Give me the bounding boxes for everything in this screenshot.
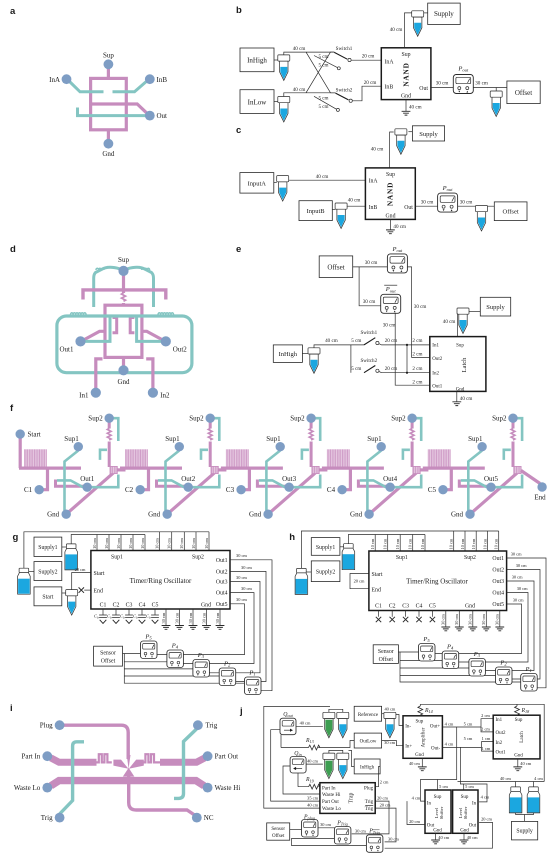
svg-text:40 cm: 40 cm: [438, 835, 449, 840]
svg-text:Sup: Sup: [461, 795, 469, 800]
svg-text:Out: Out: [419, 86, 428, 92]
svg-text:10 cm: 10 cm: [116, 538, 121, 549]
svg-text:30 cm: 30 cm: [161, 612, 166, 623]
svg-text:Sup2: Sup2: [189, 415, 204, 423]
svg-text:Supply: Supply: [486, 304, 505, 311]
svg-text:Start: Start: [372, 572, 383, 578]
svg-text:10 cm: 10 cm: [128, 538, 133, 549]
svg-text:30 cm: 30 cm: [236, 597, 247, 602]
svg-text:Qout: Qout: [283, 712, 293, 718]
svg-text:30 cm: 30 cm: [215, 612, 220, 623]
svg-text:Out5: Out5: [492, 602, 504, 608]
svg-text:Sup1: Sup1: [111, 554, 123, 560]
svg-text:Trig: Trig: [365, 807, 374, 812]
svg-text:Out1: Out1: [216, 558, 228, 564]
svg-text:Offset: Offset: [327, 264, 344, 272]
svg-text:P3: P3: [197, 652, 205, 659]
svg-text:20 cm: 20 cm: [364, 80, 377, 86]
svg-text:InB: InB: [157, 76, 168, 84]
svg-text:Supply2: Supply2: [316, 570, 335, 576]
svg-text:30 cm: 30 cm: [468, 614, 473, 625]
svg-text:2 cm: 2 cm: [412, 366, 422, 372]
svg-text:10 cm: 10 cm: [154, 538, 159, 549]
svg-text:30 cm: 30 cm: [188, 612, 193, 623]
svg-text:Cb: Cb: [94, 614, 99, 620]
svg-text:Sup: Sup: [515, 718, 523, 723]
svg-text:Gnd: Gnd: [47, 511, 60, 519]
svg-text:j: j: [239, 706, 243, 717]
svg-text:Part In: Part In: [322, 786, 336, 791]
svg-text:40 cm: 40 cm: [520, 761, 531, 766]
svg-text:Pout: Pout: [385, 286, 397, 293]
svg-text:Offset: Offset: [272, 834, 285, 839]
svg-text:20 cm: 20 cm: [75, 567, 86, 572]
svg-text:30 cm: 30 cm: [241, 565, 252, 570]
svg-text:30 cm: 30 cm: [384, 740, 395, 745]
svg-text:Gnd: Gnd: [401, 94, 411, 100]
svg-text:30 cm: 30 cm: [388, 836, 399, 841]
svg-text:Shifter: Shifter: [439, 806, 444, 819]
svg-text:Gnd: Gnd: [514, 754, 523, 759]
svg-text:Sup: Sup: [401, 52, 410, 58]
svg-text:2 cm: 2 cm: [412, 338, 422, 344]
svg-text:Trig: Trig: [41, 814, 53, 822]
svg-text:5 cm: 5 cm: [465, 784, 474, 789]
svg-text:40 cm: 40 cm: [307, 803, 318, 808]
svg-text:40 cm: 40 cm: [500, 776, 511, 781]
svg-text:In: In: [427, 801, 432, 806]
svg-text:30 cm: 30 cm: [320, 822, 331, 827]
svg-text:Gnd: Gnd: [249, 511, 262, 519]
svg-text:Gnd: Gnd: [433, 828, 442, 833]
svg-text:40 cm: 40 cm: [348, 198, 361, 204]
svg-text:30 cm: 30 cm: [236, 575, 247, 580]
svg-text:Out: Out: [469, 823, 477, 828]
svg-text:R13: R13: [305, 738, 314, 744]
svg-text:R19: R19: [305, 777, 315, 783]
svg-text:20 cm: 20 cm: [354, 579, 365, 584]
svg-text:Offset: Offset: [503, 209, 519, 216]
svg-text:P3: P3: [473, 651, 481, 658]
svg-text:d: d: [10, 244, 16, 255]
svg-text:Out: Out: [157, 112, 168, 120]
svg-text:Gnd: Gnd: [148, 511, 161, 519]
svg-text:Plug: Plug: [40, 722, 53, 730]
svg-text:30 cm: 30 cm: [201, 612, 206, 623]
svg-text:30 cm: 30 cm: [355, 828, 366, 833]
svg-text:5 cm: 5 cm: [439, 784, 448, 789]
svg-text:c: c: [236, 125, 241, 136]
svg-text:2 cm: 2 cm: [481, 726, 490, 731]
svg-text:In+: In+: [405, 745, 412, 750]
svg-text:C4: C4: [416, 603, 423, 609]
svg-text:End: End: [94, 589, 103, 595]
svg-text:In2: In2: [496, 741, 503, 746]
svg-text:Out2: Out2: [181, 475, 196, 483]
svg-text:10 cm: 10 cm: [204, 538, 209, 549]
svg-text:30 cm: 30 cm: [495, 614, 500, 625]
svg-text:Waste Lo: Waste Lo: [14, 784, 41, 792]
svg-text:e: e: [236, 244, 241, 255]
svg-text:Sup1: Sup1: [396, 555, 408, 561]
svg-text:In2: In2: [432, 371, 439, 376]
svg-text:Out2: Out2: [173, 346, 188, 354]
svg-text:Sup2: Sup2: [464, 555, 476, 561]
svg-text:Out1: Out1: [496, 751, 507, 756]
svg-text:30 cm: 30 cm: [511, 551, 522, 556]
svg-text:30 cm: 30 cm: [517, 586, 528, 591]
svg-text:Supply1: Supply1: [38, 545, 57, 551]
svg-text:End: End: [372, 588, 381, 594]
svg-text:Gnd: Gnd: [415, 753, 424, 758]
svg-text:20 cm: 20 cm: [481, 817, 492, 822]
svg-text:a: a: [10, 6, 16, 17]
svg-text:5 cm: 5 cm: [464, 736, 473, 741]
svg-text:2 cm: 2 cm: [412, 379, 422, 385]
svg-text:Sup2: Sup2: [391, 415, 406, 423]
svg-text:C5: C5: [429, 603, 436, 609]
svg-text:Plug: Plug: [364, 786, 374, 791]
svg-text:40 cm: 40 cm: [293, 46, 306, 52]
svg-text:C1: C1: [100, 602, 107, 608]
svg-text:20 cm: 20 cm: [380, 803, 391, 808]
svg-text:Sup1: Sup1: [468, 435, 483, 443]
svg-text:Sup2: Sup2: [290, 415, 305, 423]
svg-text:5 cm: 5 cm: [464, 721, 473, 726]
svg-text:30 cm: 30 cm: [475, 81, 488, 87]
svg-text:Out2: Out2: [432, 357, 443, 362]
svg-text:Sup2: Sup2: [492, 415, 507, 423]
svg-text:10 cm: 10 cm: [167, 538, 172, 549]
svg-text:C3: C3: [126, 602, 133, 608]
svg-text:40 cm: 40 cm: [393, 224, 406, 230]
svg-text:b: b: [236, 5, 242, 16]
svg-text:Out1: Out1: [492, 556, 504, 562]
svg-text:Supply1: Supply1: [316, 545, 335, 551]
svg-text:C3: C3: [402, 603, 409, 609]
svg-text:R18: R18: [521, 708, 531, 714]
svg-text:Sup1: Sup1: [64, 435, 79, 443]
svg-text:g: g: [13, 532, 19, 543]
svg-text:InB: InB: [369, 205, 378, 211]
svg-text:In-: In-: [405, 725, 411, 730]
svg-text:Out5: Out5: [216, 602, 228, 608]
svg-text:C2: C2: [113, 602, 120, 608]
svg-text:4 cm: 4 cm: [481, 795, 490, 800]
svg-text:Supply: Supply: [516, 829, 533, 835]
svg-text:5 cm: 5 cm: [351, 338, 361, 344]
svg-text:Sup: Sup: [103, 52, 114, 60]
svg-text:Out4: Out4: [216, 591, 228, 597]
svg-text:Out3: Out3: [492, 579, 504, 585]
svg-text:10 cm: 10 cm: [494, 538, 499, 549]
svg-text:Offset: Offset: [515, 89, 532, 97]
svg-text:P1: P1: [248, 670, 255, 677]
svg-text:Switch2: Switch2: [336, 87, 353, 93]
svg-text:2 cm: 2 cm: [481, 713, 490, 718]
svg-text:P1: P1: [525, 666, 532, 673]
svg-text:Start: Start: [94, 571, 105, 577]
svg-text:30 cm: 30 cm: [236, 553, 247, 558]
svg-text:Sup: Sup: [434, 795, 442, 800]
svg-text:Trig: Trig: [365, 800, 374, 805]
svg-text:Out: Out: [404, 205, 413, 211]
svg-text:10 cm: 10 cm: [408, 538, 413, 549]
svg-text:InputB: InputB: [307, 208, 326, 215]
svg-text:40 cm: 40 cm: [409, 761, 420, 766]
svg-text:Sup2: Sup2: [88, 415, 103, 423]
svg-text:Offset: Offset: [101, 658, 116, 665]
svg-text:Gnd: Gnd: [465, 603, 475, 609]
svg-text:30 cm: 30 cm: [421, 200, 434, 206]
svg-text:Switch2: Switch2: [360, 358, 377, 364]
svg-text:5 cm: 5 cm: [318, 96, 328, 102]
svg-text:10 cm: 10 cm: [420, 538, 425, 549]
svg-text:C3: C3: [226, 486, 235, 494]
svg-text:Out3: Out3: [216, 580, 228, 586]
svg-text:C2: C2: [125, 486, 134, 494]
svg-text:30 cm: 30 cm: [436, 81, 449, 87]
svg-text:InHigh: InHigh: [247, 56, 267, 64]
svg-text:P5: P5: [144, 634, 152, 641]
svg-text:Out2: Out2: [496, 731, 507, 736]
svg-text:Cb: Cb: [107, 614, 112, 620]
svg-text:4 cm: 4 cm: [445, 742, 454, 747]
svg-text:Sup: Sup: [118, 256, 129, 264]
svg-text:InHigh: InHigh: [360, 766, 375, 771]
svg-text:P5: P5: [422, 636, 430, 643]
svg-text:Out1: Out1: [432, 385, 443, 390]
svg-text:Switch1: Switch1: [336, 46, 353, 52]
svg-text:Sup1: Sup1: [266, 435, 281, 443]
svg-text:InA: InA: [369, 179, 379, 185]
svg-text:10 cm: 10 cm: [383, 538, 388, 549]
svg-text:Gnd: Gnd: [460, 828, 469, 833]
svg-text:NAND: NAND: [386, 182, 395, 206]
svg-text:Out2: Out2: [216, 569, 228, 575]
svg-text:Gnd: Gnd: [350, 511, 363, 519]
svg-text:40 cm: 40 cm: [316, 174, 329, 180]
svg-text:Out4: Out4: [383, 475, 398, 483]
svg-text:2 cm: 2 cm: [412, 352, 422, 358]
svg-text:4 cm: 4 cm: [412, 796, 421, 801]
svg-text:PTrig: PTrig: [336, 820, 348, 826]
svg-text:10 cm: 10 cm: [460, 538, 465, 549]
svg-text:30 cm: 30 cm: [513, 598, 524, 603]
svg-text:In1: In1: [496, 718, 503, 723]
svg-text:Pout: Pout: [391, 246, 403, 253]
svg-text:Supply: Supply: [419, 131, 438, 138]
svg-text:C4: C4: [327, 486, 336, 494]
svg-text:40 cm: 40 cm: [409, 105, 422, 111]
svg-text:Out4: Out4: [492, 591, 504, 597]
svg-text:Cb: Cb: [133, 614, 138, 620]
svg-text:Out+: Out+: [430, 725, 441, 730]
svg-text:OutLow: OutLow: [360, 740, 377, 745]
svg-text:Start: Start: [28, 431, 41, 439]
svg-text:40 cm: 40 cm: [460, 396, 473, 402]
svg-text:Out1: Out1: [80, 475, 95, 483]
svg-text:Waste Hi: Waste Hi: [215, 784, 241, 792]
svg-text:40 cm: 40 cm: [293, 87, 306, 93]
svg-text:PTrig: PTrig: [368, 829, 380, 835]
svg-text:10 cm: 10 cm: [140, 538, 145, 549]
svg-text:Pout: Pout: [442, 185, 454, 192]
svg-text:InA: InA: [385, 60, 395, 66]
svg-text:4 cm: 4 cm: [445, 721, 454, 726]
svg-text:20 cm: 20 cm: [377, 795, 388, 800]
svg-text:Sup: Sup: [456, 344, 464, 349]
svg-text:i: i: [10, 703, 13, 714]
svg-text:30 cm: 30 cm: [363, 299, 376, 305]
svg-text:Sup: Sup: [416, 719, 424, 724]
svg-text:40 cm: 40 cm: [325, 338, 338, 344]
svg-text:Gnd: Gnd: [451, 511, 464, 519]
svg-text:10 cm: 10 cm: [104, 538, 109, 549]
svg-text:Part Out: Part Out: [322, 800, 339, 805]
svg-text:Part In: Part In: [21, 753, 40, 761]
svg-text:In1: In1: [79, 392, 89, 400]
svg-text:C5: C5: [152, 602, 159, 608]
svg-text:Cb: Cb: [120, 614, 125, 620]
svg-text:Out5: Out5: [484, 475, 499, 483]
svg-text:10 cm: 10 cm: [482, 538, 487, 549]
svg-text:40 cm: 40 cm: [300, 721, 311, 726]
svg-text:5 cm: 5 cm: [318, 104, 328, 110]
svg-text:P2: P2: [499, 660, 507, 667]
svg-text:InHigh: InHigh: [279, 351, 298, 358]
svg-text:Trap: Trap: [349, 793, 355, 804]
svg-text:C1: C1: [375, 603, 382, 609]
svg-text:10 cm: 10 cm: [370, 538, 375, 549]
svg-text:Amplifier: Amplifier: [422, 727, 427, 747]
svg-text:4 cm: 4 cm: [534, 776, 543, 781]
svg-text:Out3: Out3: [282, 475, 297, 483]
svg-text:Pplug: Pplug: [303, 814, 315, 820]
svg-text:Sup1: Sup1: [165, 435, 180, 443]
svg-text:C4: C4: [139, 602, 146, 608]
svg-text:Gnd: Gnd: [102, 150, 115, 158]
svg-text:f: f: [10, 403, 14, 414]
svg-text:40 cm: 40 cm: [390, 27, 403, 33]
svg-text:30 cm: 30 cm: [512, 575, 523, 580]
svg-text:Sup: Sup: [386, 172, 395, 178]
svg-text:40 cm: 40 cm: [384, 706, 395, 711]
svg-text:In: In: [472, 801, 477, 806]
svg-text:Gnd: Gnd: [117, 378, 130, 386]
svg-text:Start: Start: [42, 595, 53, 601]
svg-text:30 cm: 30 cm: [414, 304, 427, 310]
svg-text:Waste Lo: Waste Lo: [322, 807, 341, 812]
svg-text:Sensor: Sensor: [378, 649, 394, 655]
svg-text:Gnd: Gnd: [201, 602, 211, 608]
svg-text:Sup1: Sup1: [367, 435, 382, 443]
svg-text:Latch: Latch: [461, 357, 468, 373]
svg-text:30 cm: 30 cm: [516, 563, 527, 568]
svg-text:Part Out: Part Out: [215, 753, 239, 761]
svg-text:35 cm: 35 cm: [307, 796, 318, 801]
svg-text:Out1: Out1: [60, 346, 75, 354]
svg-text:C5: C5: [428, 486, 437, 494]
svg-text:In1: In1: [432, 344, 439, 349]
svg-text:Supply2: Supply2: [38, 569, 57, 575]
svg-text:40 cm: 40 cm: [467, 835, 478, 840]
svg-text:Sensor: Sensor: [271, 827, 285, 832]
svg-text:Waste Hi: Waste Hi: [322, 793, 341, 798]
svg-text:In2: In2: [160, 392, 170, 400]
svg-text:30 cm: 30 cm: [174, 612, 179, 623]
svg-text:End: End: [534, 494, 546, 502]
svg-text:30 cm: 30 cm: [241, 586, 252, 591]
svg-text:InputA: InputA: [248, 180, 267, 187]
svg-text:InA: InA: [49, 76, 60, 84]
svg-text:Cb: Cb: [146, 614, 151, 620]
svg-text:30 cm: 30 cm: [441, 614, 446, 625]
svg-text:20 cm: 20 cm: [385, 338, 398, 344]
svg-text:Sup2: Sup2: [192, 554, 204, 560]
svg-text:NAND: NAND: [402, 62, 411, 86]
svg-text:1 cm: 1 cm: [482, 736, 491, 741]
svg-text:20 cm: 20 cm: [409, 819, 420, 824]
svg-text:C1: C1: [24, 486, 33, 494]
svg-text:Latch: Latch: [520, 731, 525, 743]
svg-text:10 cm: 10 cm: [191, 538, 196, 549]
svg-text:Trig: Trig: [205, 722, 217, 730]
svg-text:1 cm: 1 cm: [482, 746, 491, 751]
svg-text:Offset: Offset: [379, 656, 394, 663]
svg-text:Timer/Ring Oscillator: Timer/Ring Oscillator: [130, 577, 192, 585]
svg-text:40 cm: 40 cm: [443, 319, 456, 325]
svg-text:P4: P4: [446, 644, 454, 651]
svg-text:10 cm: 10 cm: [395, 538, 400, 549]
svg-text:5 cm: 5 cm: [318, 63, 328, 69]
svg-text:30 cm: 30 cm: [383, 322, 396, 328]
svg-text:10 cm: 10 cm: [92, 538, 97, 549]
svg-text:2 cm: 2 cm: [380, 779, 389, 784]
svg-text:Timer/Ring Oscillator: Timer/Ring Oscillator: [406, 578, 468, 586]
svg-text:R14: R14: [424, 708, 433, 714]
svg-text:Gnd: Gnd: [386, 213, 396, 219]
svg-text:40 cm: 40 cm: [371, 147, 384, 153]
svg-text:10 cm: 10 cm: [471, 538, 476, 549]
svg-text:Out2: Out2: [492, 568, 504, 574]
svg-text:20 cm: 20 cm: [362, 54, 375, 60]
svg-text:P4: P4: [171, 643, 179, 650]
svg-text:NC: NC: [204, 814, 214, 822]
svg-text:Switch1: Switch1: [360, 330, 377, 336]
svg-text:C2: C2: [389, 603, 396, 609]
svg-text:5 cm: 5 cm: [351, 366, 361, 372]
svg-text:Out-: Out-: [431, 747, 441, 752]
svg-text:P2: P2: [223, 661, 231, 668]
svg-text:30 cm: 30 cm: [365, 260, 378, 266]
svg-text:InLow: InLow: [248, 98, 268, 106]
svg-text:Supply: Supply: [434, 10, 454, 18]
svg-text:40 cm: 40 cm: [307, 758, 318, 763]
svg-text:Shifter: Shifter: [463, 806, 468, 819]
svg-text:5 cm: 5 cm: [318, 54, 328, 60]
svg-text:10 cm: 10 cm: [449, 538, 454, 549]
svg-text:30 cm: 30 cm: [460, 200, 473, 206]
svg-text:InB: InB: [385, 85, 394, 91]
svg-text:10 cm: 10 cm: [179, 538, 184, 549]
svg-text:Reference: Reference: [358, 713, 379, 718]
svg-text:30 cm: 30 cm: [481, 614, 486, 625]
svg-text:Qin: Qin: [294, 751, 301, 757]
svg-text:20 cm: 20 cm: [385, 366, 398, 372]
svg-text:h: h: [289, 532, 295, 543]
svg-text:30 cm: 30 cm: [454, 614, 459, 625]
